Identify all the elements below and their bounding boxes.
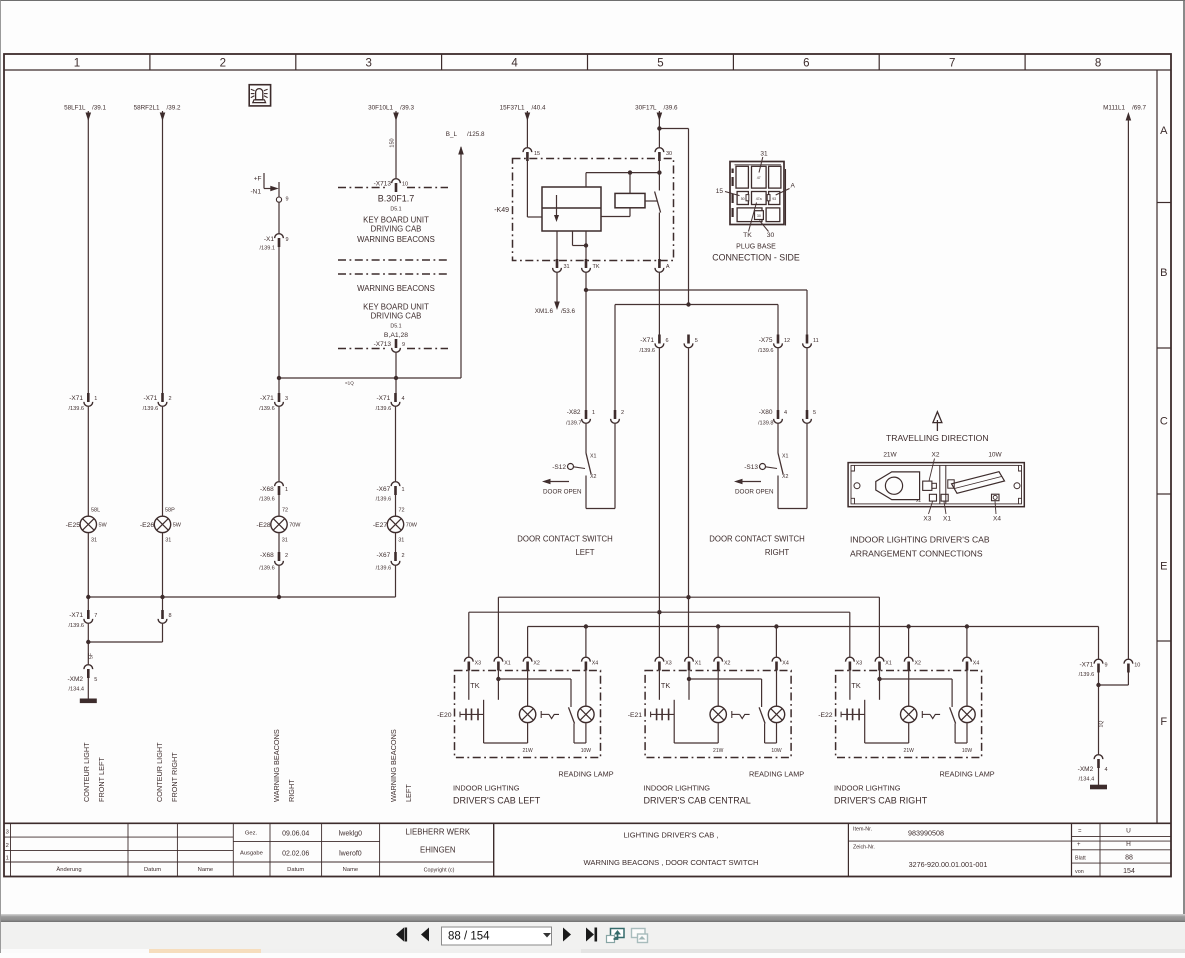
indoor lighting fixture drawing: [848, 463, 1024, 507]
svg-text:4: 4: [511, 58, 518, 70]
svg-text:RIGHT: RIGHT: [287, 779, 296, 802]
svg-text:1: 1: [592, 410, 595, 416]
wire X71-4 to connector X67: [395, 407, 397, 481]
label indoor lighting arrangement: [850, 535, 990, 559]
label door contact switch left: [517, 535, 612, 558]
svg-text:31: 31: [760, 151, 768, 158]
label travelling direction: [886, 433, 989, 443]
svg-text:D5.1: D5.1: [390, 207, 401, 213]
K49 pin 31 connector: [553, 259, 570, 272]
svg-text:/139.6: /139.6: [758, 348, 774, 354]
svg-text:CONTEUR LIGHT: CONTEUR LIGHT: [82, 742, 91, 802]
wire lamp bus left: [86, 533, 395, 610]
svg-text:Datum: Datum: [287, 867, 304, 873]
connector X80 pin 5: [803, 410, 816, 423]
connector -E20 X2: [523, 657, 540, 670]
svg-text:FRONT RIGHT: FRONT RIGHT: [170, 752, 179, 802]
selector switch -E22: [922, 707, 955, 723]
label TK unit -E20: [470, 681, 479, 690]
svg-text:LIEBHERR WERK: LIEBHERR WERK: [406, 828, 471, 837]
label warning beacons left: [389, 729, 413, 802]
svg-text:/139.7: /139.7: [566, 421, 582, 427]
lamp -E20 10W: [574, 670, 594, 754]
svg-text:DOOR CONTACT SWITCH: DOOR CONTACT SWITCH: [517, 535, 612, 544]
svg-text:15: 15: [534, 151, 540, 157]
svg-text:5: 5: [813, 410, 816, 416]
wire X713 to junction node: [395, 353, 397, 393]
travelling direction arrow: [933, 412, 942, 431]
label plug base: [712, 244, 800, 263]
svg-text:1: 1: [6, 856, 9, 862]
connector X71 pin 5: [684, 335, 698, 348]
wire A-terminal down: [658, 273, 660, 335]
svg-text:93: 93: [772, 197, 776, 201]
svg-text:-X71: -X71: [1079, 662, 1093, 669]
svg-text:30: 30: [757, 214, 761, 218]
connector -E20 X1: [494, 657, 511, 670]
svg-text:X1: X1: [885, 661, 892, 667]
wire X1 down to junction: [278, 247, 280, 393]
svg-text:10: 10: [402, 182, 408, 188]
connector -E22 X4: [963, 657, 980, 670]
svg-text:-X68: -X68: [260, 552, 274, 559]
indoor lighting unit -E21 boundary: [645, 671, 791, 758]
svg-text:KEY BOARD UNIT: KEY BOARD UNIT: [363, 303, 429, 312]
device N1: [251, 189, 262, 196]
connector -E22 X3: [846, 657, 863, 670]
wire -E20 X1 branch: [496, 670, 571, 707]
svg-text:9: 9: [286, 237, 289, 243]
svg-text:X2: X2: [590, 474, 597, 480]
svg-text:X2: X2: [782, 474, 789, 480]
svg-text:READING LAMP: READING LAMP: [749, 770, 804, 779]
wire X71-1 to lamp E25: [87, 407, 89, 516]
connector X71 pin 10: [1124, 659, 1140, 672]
wire L3 to connector X71 pin 9: [1098, 627, 1100, 659]
title block item number: [853, 827, 944, 838]
svg-text:ARRANGEMENT CONNECTIONS: ARRANGEMENT CONNECTIONS: [850, 549, 983, 559]
svg-text:X4: X4: [973, 661, 980, 667]
connector XM2 pin 5: [67, 665, 97, 693]
K49 pin A connector: [655, 259, 670, 272]
svg-text:/139.6: /139.6: [376, 497, 392, 503]
connector X71 pin 6: [639, 335, 668, 354]
suppression capacitor -E22: [818, 709, 864, 721]
lamp E25 conteur light front left: [66, 508, 108, 544]
svg-text:Zeich-Nr.: Zeich-Nr.: [853, 845, 875, 851]
svg-text:XM1.6: XM1.6: [535, 308, 554, 315]
svg-text:-X75: -X75: [759, 337, 773, 344]
wire line B: [615, 302, 778, 410]
wire B_L riser: [446, 131, 485, 378]
wire pin6 down to lamp2 X3: [658, 349, 660, 657]
label indoor lighting DRIVER'S CAB LEFT: [453, 784, 541, 806]
wire 30F10L1 down with tag 150: [390, 111, 399, 178]
switch S12 door contact left: [552, 424, 596, 509]
svg-text:RIGHT: RIGHT: [765, 548, 789, 557]
toolbar previous page button: [421, 928, 429, 942]
K49 module bottom leads: [557, 231, 588, 259]
lamp -E22 10W: [955, 670, 975, 754]
svg-text:C: C: [1160, 416, 1168, 428]
svg-text:-X67: -X67: [376, 552, 390, 559]
svg-text:U: U: [1126, 828, 1131, 835]
svg-text:10W: 10W: [771, 748, 782, 754]
label warning beacons right: [272, 729, 296, 802]
K49 pin TK connector: [582, 259, 600, 272]
toolbar previous view button: [607, 929, 625, 943]
wire -E20 X3 stub: [468, 670, 470, 700]
svg-text:12: 12: [784, 338, 790, 344]
title block sheet cells: [1075, 828, 1135, 876]
svg-text:X3: X3: [856, 661, 863, 667]
svg-text:3: 3: [6, 830, 9, 836]
svg-text:70W: 70W: [406, 523, 418, 529]
connector X67 pin 1: [376, 482, 405, 503]
svg-text:5F: 5F: [89, 653, 95, 659]
svg-text:72: 72: [282, 508, 288, 514]
wire 30F17L branch to vertical 687: [657, 126, 688, 305]
svg-text:-X80: -X80: [759, 409, 773, 416]
svg-text:/139.6: /139.6: [1079, 672, 1095, 678]
wire X71-8 return: [86, 624, 162, 664]
svg-text:88: 88: [1125, 855, 1133, 862]
svg-text:58P: 58P: [165, 508, 175, 514]
svg-text:/139.1: /139.1: [259, 246, 275, 252]
svg-text:DRIVER'S CAB RIGHT: DRIVER'S CAB RIGHT: [834, 796, 928, 806]
fixture labels X3 X1 X4: [916, 498, 1001, 523]
svg-text:/134.4: /134.4: [68, 687, 84, 693]
svg-text:1: 1: [285, 487, 288, 493]
connector -E21 X4: [772, 657, 789, 670]
connector XM2 pin 4: [1078, 755, 1108, 783]
svg-text:X2: X2: [915, 661, 922, 667]
selector switch -E20: [541, 707, 574, 723]
connector X75 pin 12: [758, 335, 790, 354]
label reading lamp -E21: [749, 770, 804, 779]
wire 58LF1L down: [86, 111, 92, 393]
svg-text:-E25: -E25: [66, 522, 81, 529]
svg-text:/69.7: /69.7: [1132, 105, 1147, 112]
svg-text:1: 1: [94, 396, 97, 402]
svg-text:TK: TK: [470, 681, 479, 690]
svg-text:DRIVING CAB: DRIVING CAB: [371, 312, 422, 321]
svg-text:INDOOR LIGHTING DRIVER'S CAB: INDOOR LIGHTING DRIVER'S CAB: [850, 535, 990, 545]
wire bus L2: [469, 610, 850, 657]
connector -E20 X4: [582, 657, 599, 670]
svg-text:X3: X3: [923, 516, 931, 523]
svg-text:-N1: -N1: [251, 189, 262, 196]
svg-text:/139.6: /139.6: [259, 406, 275, 412]
svg-text:PLUG BASE: PLUG BASE: [736, 244, 776, 251]
svg-text:-X1: -X1: [264, 236, 275, 243]
svg-text:D5.1: D5.1: [390, 324, 401, 330]
svg-text:/139.6: /139.6: [259, 566, 275, 572]
svg-text:-S13: -S13: [744, 464, 758, 471]
wire pin15 into module: [527, 161, 542, 217]
svg-text:-E20: -E20: [437, 712, 452, 719]
wire -E22 X1 branch: [877, 670, 952, 707]
svg-text:/139.6: /139.6: [639, 348, 655, 354]
connector X71 pin 8: [158, 610, 171, 623]
svg-text:4: 4: [784, 410, 787, 416]
node 58LF1L feed: [64, 105, 106, 112]
wire -E22 X3 stub: [849, 670, 851, 700]
wire S13 return loop: [778, 424, 807, 509]
plug base pin labels: [716, 151, 796, 240]
title block grid: [4, 823, 1171, 876]
indoor lighting unit -E22 boundary: [836, 671, 982, 758]
svg-text:READING LAMP: READING LAMP: [558, 770, 613, 779]
svg-text:-E26: -E26: [140, 522, 155, 529]
svg-text:09.06.04: 09.06.04: [282, 831, 309, 838]
svg-text:21W: 21W: [713, 748, 724, 754]
taskbar hint strips: [1, 949, 149, 953]
svg-text:15F37L1: 15F37L1: [500, 105, 525, 112]
row letters A B C E F: [1157, 125, 1171, 728]
connector X82 pin 1: [566, 409, 595, 427]
svg-text:-X71: -X71: [69, 612, 83, 619]
svg-text:7: 7: [949, 58, 955, 70]
svg-text:70W: 70W: [289, 523, 301, 529]
svg-text:B_L: B_L: [446, 131, 458, 138]
label TK unit -E21: [661, 681, 670, 690]
svg-text:X1: X1: [504, 661, 511, 667]
connector X1 pin 9: [259, 234, 288, 252]
svg-text:X2: X2: [724, 661, 731, 667]
svg-text:M111L1: M111L1: [1103, 105, 1125, 112]
svg-text:A: A: [1160, 125, 1168, 137]
svg-text:2: 2: [402, 553, 405, 559]
K49 relay coil: [601, 173, 657, 217]
svg-text:INDOOR LIGHTING: INDOOR LIGHTING: [644, 784, 711, 793]
svg-text:/139.6: /139.6: [68, 623, 84, 629]
svg-text:READING LAMP: READING LAMP: [940, 770, 995, 779]
toolbar page combo box: [442, 927, 552, 945]
svg-text:Name: Name: [198, 867, 213, 873]
connector X67 pin 2: [376, 533, 405, 572]
svg-text:/139.8: /139.8: [758, 421, 774, 427]
title block drawing number: [853, 845, 987, 870]
svg-text:-X71: -X71: [260, 395, 274, 402]
svg-text:1Q: 1Q: [1099, 721, 1105, 728]
svg-text:31: 31: [165, 538, 171, 544]
svg-text:+: +: [1077, 842, 1081, 848]
svg-text:X4: X4: [592, 661, 599, 667]
svg-text:5: 5: [94, 677, 97, 683]
svg-text:-X71: -X71: [640, 337, 654, 344]
svg-text:1: 1: [74, 58, 80, 70]
column header numbers 1-8: [74, 54, 1102, 70]
svg-text:WARNING BEACONS: WARNING BEACONS: [389, 729, 398, 802]
svg-text:-K49: -K49: [494, 207, 509, 214]
svg-text:EHINGEN: EHINGEN: [420, 846, 456, 855]
svg-text:/39.6: /39.6: [664, 105, 679, 112]
svg-text:A: A: [791, 183, 796, 190]
wire X71-3 to connector X68: [278, 407, 280, 481]
svg-text:6: 6: [666, 338, 669, 344]
svg-text:INDOOR LIGHTING: INDOOR LIGHTING: [453, 784, 520, 793]
svg-text:WARNING BEACONS: WARNING BEACONS: [272, 729, 281, 802]
svg-text:3276-920.00.01.001-001: 3276-920.00.01.001-001: [909, 860, 988, 869]
connector X68 pin 2: [259, 533, 288, 572]
K49 pin 30 connector: [655, 148, 672, 161]
svg-text:31: 31: [398, 538, 404, 544]
svg-text:154: 154: [1123, 868, 1135, 875]
connector -E22 X2: [904, 657, 921, 670]
svg-text:-X71: -X71: [376, 395, 390, 402]
title block company: [406, 828, 471, 874]
connector -E22 X1: [875, 657, 892, 670]
svg-text:FRONT LEFT: FRONT LEFT: [97, 757, 106, 802]
wire +F to node: [264, 173, 279, 191]
svg-text:LIGHTING DRIVER'S CAB ,: LIGHTING DRIVER'S CAB ,: [623, 831, 718, 840]
plug base connection-side view: [730, 162, 786, 226]
svg-text:DOOR OPEN: DOOR OPEN: [735, 489, 774, 496]
node 30F10L1 feed: [368, 105, 414, 112]
svg-text:X1: X1: [782, 454, 789, 460]
svg-text:6: 6: [803, 58, 809, 70]
node +F supply: [254, 176, 262, 183]
wire -E21 X3 stub: [658, 670, 660, 700]
svg-text:TK: TK: [851, 681, 860, 690]
svg-text:1: 1: [402, 487, 405, 493]
svg-text:-X82: -X82: [567, 409, 581, 416]
wire pin10 link: [1096, 673, 1128, 755]
svg-text:30F10L1: 30F10L1: [368, 105, 393, 112]
indoor lighting unit -E20 boundary: [455, 671, 601, 758]
label indoor lighting DRIVER'S CAB CENTRAL: [644, 784, 751, 806]
K49 relay contact: [655, 158, 661, 259]
svg-text:DRIVING CAB: DRIVING CAB: [371, 225, 422, 234]
svg-text:X1: X1: [695, 661, 702, 667]
switch S13 door contact right: [744, 424, 788, 509]
svg-text:9: 9: [286, 197, 289, 203]
svg-text:TK: TK: [661, 681, 670, 690]
svg-text:X3: X3: [665, 661, 672, 667]
svg-text:3: 3: [285, 396, 288, 402]
svg-text:58L: 58L: [91, 508, 100, 514]
svg-text:-X71: -X71: [143, 395, 157, 402]
connector X71 pin 4: [376, 393, 405, 412]
toolbar last page button: [586, 928, 597, 942]
svg-text:WARNING BEACONS , DOOR CONTACT: WARNING BEACONS , DOOR CONTACT SWITCH: [584, 858, 759, 867]
svg-text:CONNECTION - SIDE: CONNECTION - SIDE: [712, 253, 800, 263]
svg-text:CONTEUR LIGHT: CONTEUR LIGHT: [155, 742, 164, 802]
svg-text:2: 2: [621, 410, 624, 416]
connector X713 pin 9: [374, 339, 405, 352]
node 30F17L feed: [635, 105, 678, 112]
svg-text:58LF1L: 58LF1L: [64, 105, 86, 112]
label reading lamp -E22: [940, 770, 995, 779]
wire 31 to XM1.6: [535, 273, 576, 315]
connector -E21 X1: [685, 657, 702, 670]
relay K49 enclosure: [494, 159, 673, 261]
svg-text:WARNING BEACONS: WARNING BEACONS: [357, 284, 435, 293]
toolbar next page button: [563, 928, 571, 942]
connector X71 pin 3: [259, 393, 288, 412]
svg-text:B: B: [1160, 267, 1167, 279]
svg-text:88 / 154: 88 / 154: [448, 931, 490, 943]
svg-text:47: 47: [757, 176, 761, 180]
lamp -E21 10W: [765, 670, 785, 754]
svg-text:+F: +F: [254, 176, 262, 183]
svg-text:-E28: -E28: [256, 522, 271, 529]
svg-text:10W: 10W: [988, 452, 1002, 459]
svg-text:DOOR CONTACT SWITCH: DOOR CONTACT SWITCH: [709, 535, 804, 544]
wire S12 return loop: [586, 424, 615, 509]
svg-text:5W: 5W: [99, 523, 108, 529]
svg-text:<1Q: <1Q: [345, 381, 354, 386]
svg-text:4: 4: [402, 396, 405, 402]
svg-text:31: 31: [282, 538, 288, 544]
svg-text:/53.6: /53.6: [561, 308, 576, 315]
wire pin 11 down to X80 pin 5: [806, 349, 808, 411]
svg-text:/139.6: /139.6: [68, 406, 84, 412]
connector X80 pin 4: [758, 409, 787, 427]
label conteur light front left: [82, 742, 106, 802]
svg-text:A: A: [666, 264, 670, 270]
svg-text:5W: 5W: [173, 523, 182, 529]
svg-text:9: 9: [402, 342, 405, 348]
svg-text:72: 72: [399, 508, 405, 514]
svg-text:-E21: -E21: [628, 712, 643, 719]
svg-text:X1: X1: [916, 498, 922, 503]
svg-text:2: 2: [169, 396, 172, 402]
svg-text:DRIVER'S CAB LEFT: DRIVER'S CAB LEFT: [453, 796, 541, 806]
arrow door open left: [542, 479, 582, 496]
selector switch -E21: [732, 707, 765, 723]
svg-text:B.30F1.7: B.30F1.7: [378, 194, 415, 204]
lamp E28 warning beacon right: [256, 495, 301, 544]
wire 15F37L1 down to K49 pin 15: [525, 111, 531, 147]
svg-text:DRIVER'S CAB CENTRAL: DRIVER'S CAB CENTRAL: [644, 796, 751, 806]
svg-text:-XM2: -XM2: [1078, 766, 1094, 773]
svg-text:-XM2: -XM2: [67, 676, 83, 683]
lamp E26 conteur light front right: [140, 508, 182, 544]
K49 internal top wire: [586, 170, 662, 187]
svg-text:8: 8: [169, 613, 172, 619]
wire TK line A: [584, 273, 807, 410]
wire 58RF2L1 down: [160, 111, 166, 393]
title block issue data: [240, 831, 362, 873]
wire M111L1 vertical: [1126, 112, 1132, 659]
node 58RF2L1 feed: [134, 105, 181, 112]
ground XM2-4: [1090, 768, 1107, 789]
title block sheet title: [584, 831, 759, 868]
svg-text:X3: X3: [475, 661, 482, 667]
lamp -E22 21W: [865, 670, 917, 754]
svg-text:F: F: [1160, 716, 1167, 728]
svg-text:30: 30: [767, 232, 775, 239]
svg-text:10: 10: [1134, 663, 1140, 669]
svg-text:8: 8: [1095, 58, 1101, 70]
lamp -E20 21W: [484, 670, 536, 754]
fixture labels 21W X2 10W: [883, 452, 1002, 482]
terminal circle 9 of N1: [276, 182, 288, 203]
connector X71 pin 2: [143, 393, 172, 412]
keyboard unit boundary lines: [338, 188, 448, 349]
svg-text:=: =: [1078, 829, 1082, 835]
svg-text:X1: X1: [590, 454, 597, 460]
label conteur light front right: [155, 742, 179, 802]
svg-text:9: 9: [1105, 663, 1108, 669]
svg-text:2: 2: [285, 553, 288, 559]
svg-text:WARNING BEACONS: WARNING BEACONS: [357, 235, 435, 244]
svg-text:2: 2: [220, 58, 226, 70]
svg-text:02.02.06: 02.02.06: [282, 851, 309, 858]
svg-text:-E27: -E27: [373, 522, 388, 529]
